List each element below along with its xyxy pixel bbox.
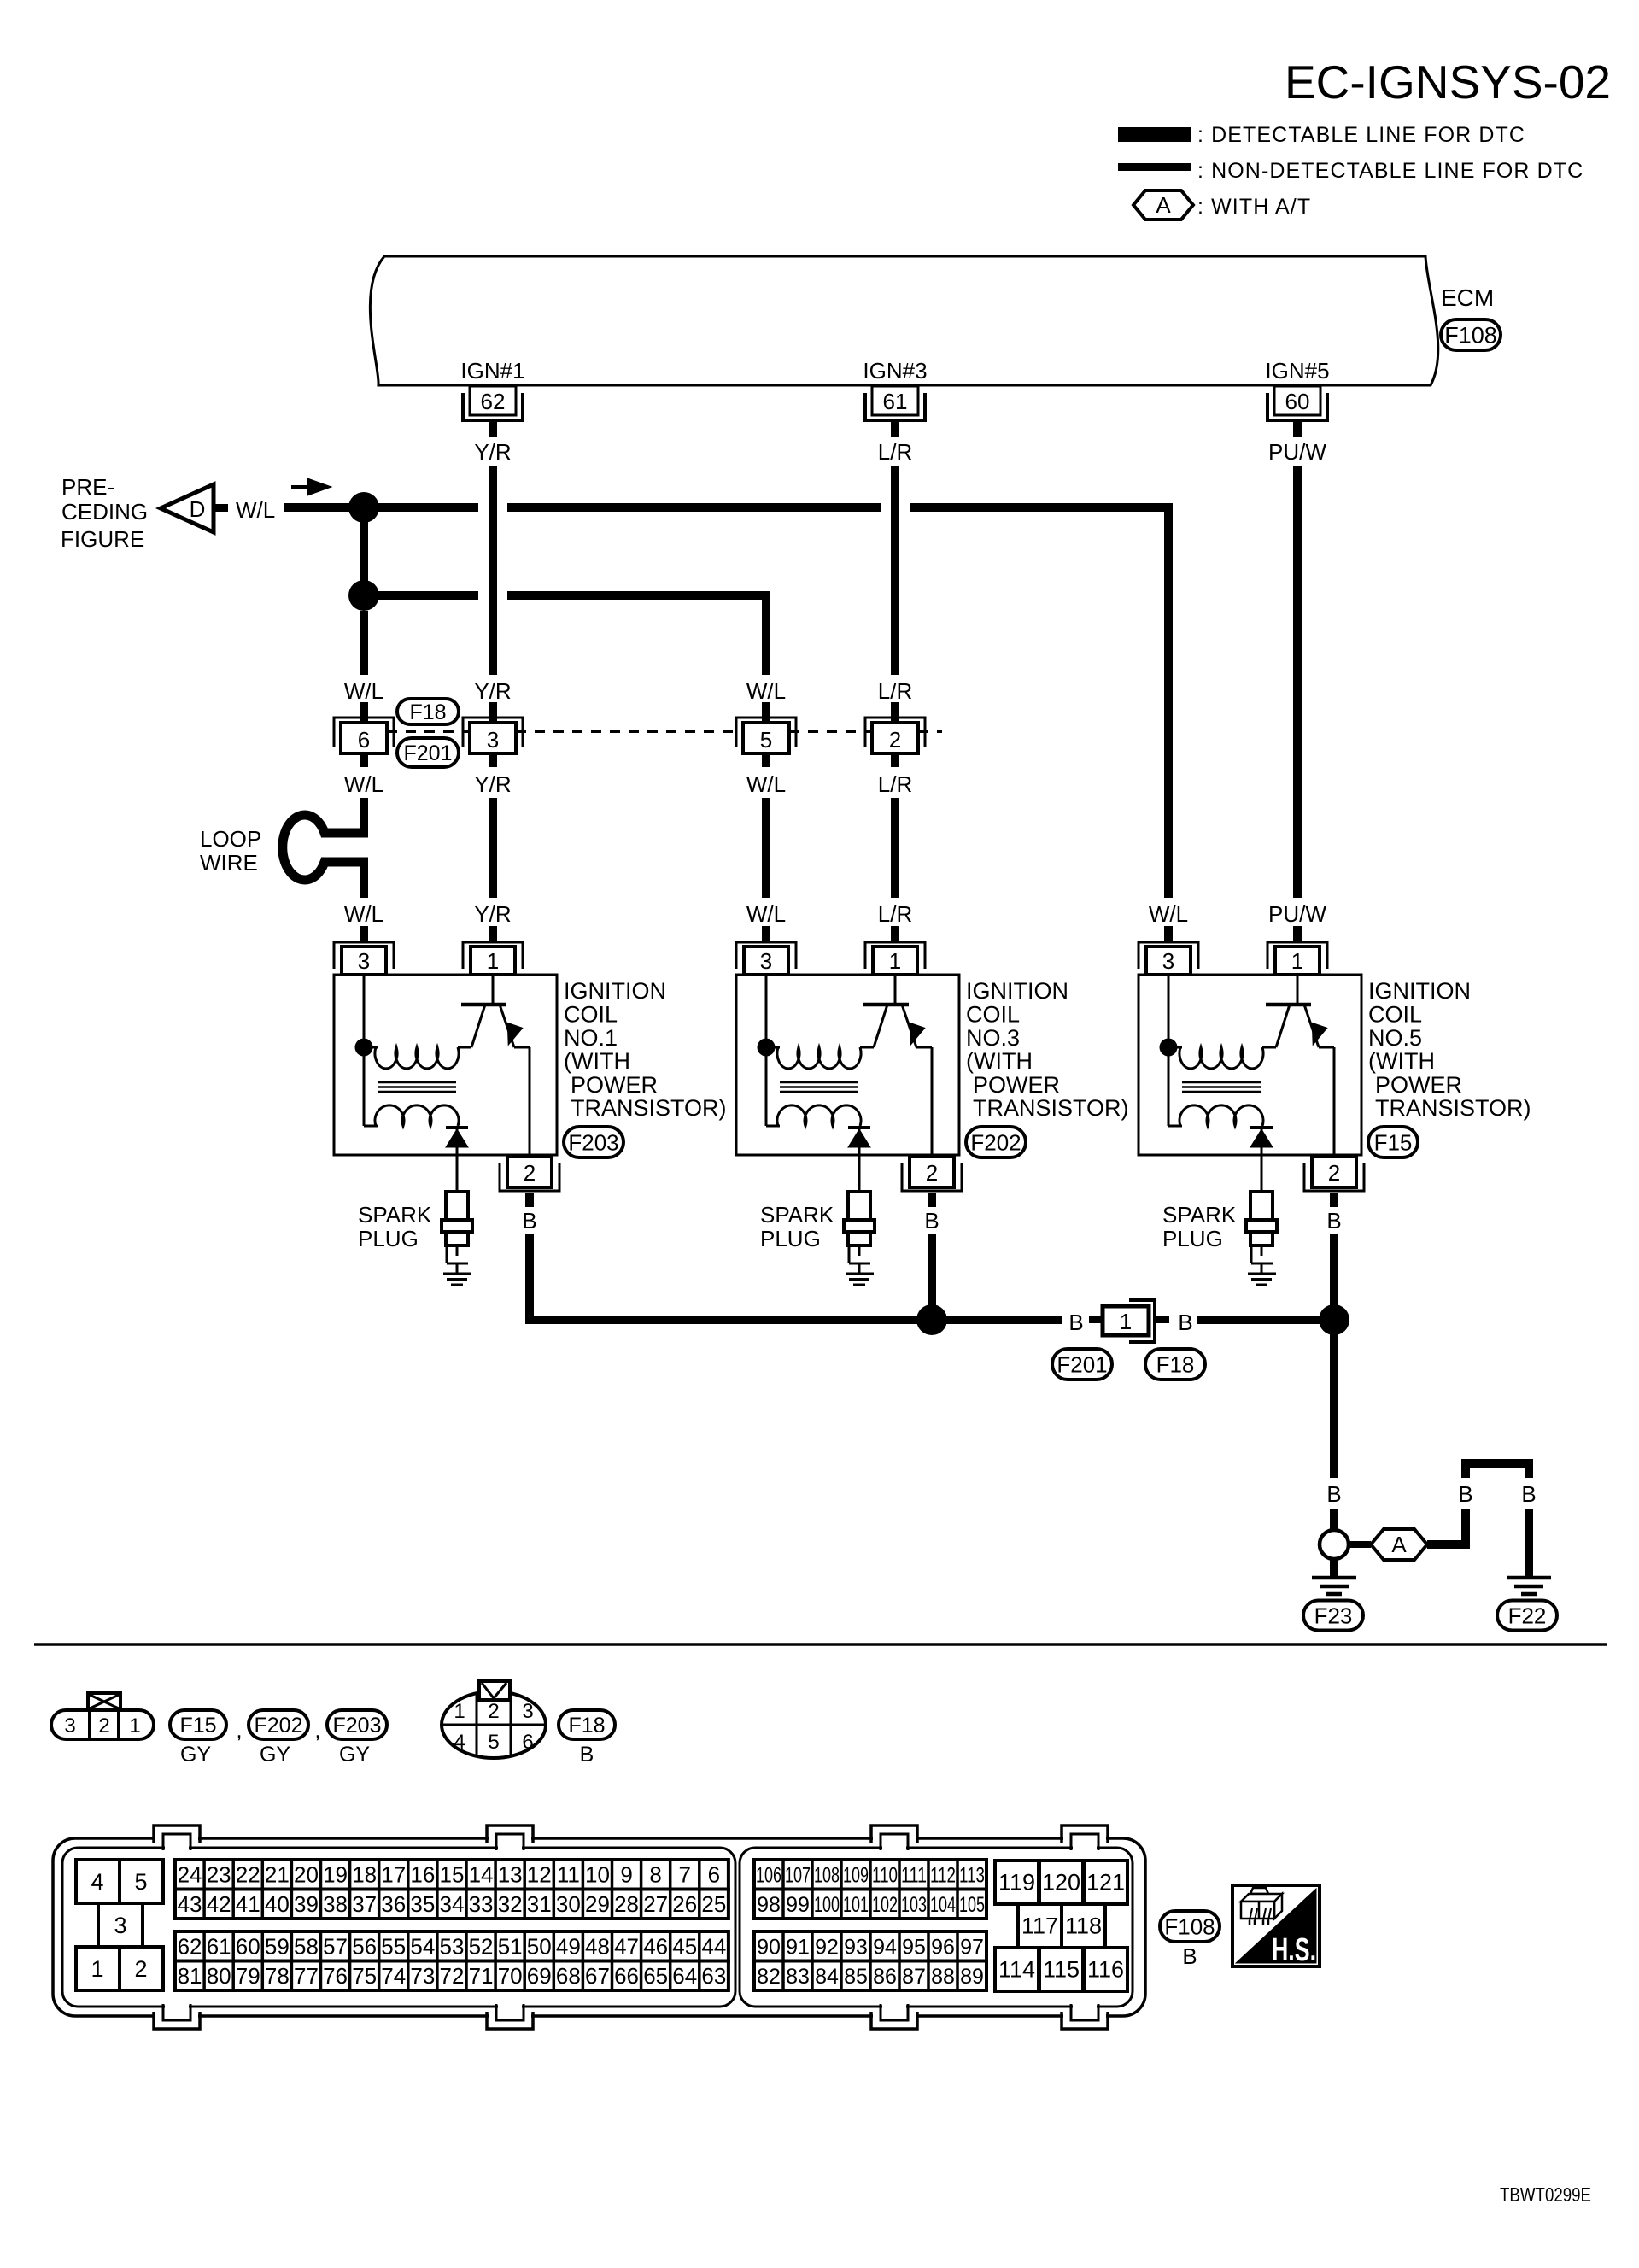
- svg-text:71: 71: [469, 1963, 494, 1989]
- svg-text:31: 31: [527, 1891, 552, 1917]
- svg-text:41: 41: [236, 1891, 260, 1917]
- svg-text:36: 36: [381, 1891, 406, 1917]
- svg-text:,: ,: [314, 1717, 320, 1743]
- svg-text:Y/R: Y/R: [474, 439, 511, 465]
- svg-text:SPARK: SPARK: [760, 1202, 834, 1228]
- svg-text:60: 60: [1285, 389, 1310, 414]
- svg-text:30: 30: [556, 1891, 581, 1917]
- svg-text:27: 27: [643, 1891, 668, 1917]
- svg-text:F23: F23: [1314, 1603, 1353, 1628]
- svg-text:5: 5: [488, 1731, 499, 1754]
- svg-text:B: B: [1068, 1310, 1083, 1335]
- svg-text:Y/R: Y/R: [474, 771, 511, 797]
- svg-text:52: 52: [469, 1934, 494, 1960]
- svg-text:119: 119: [998, 1870, 1035, 1896]
- svg-text:47: 47: [614, 1934, 639, 1960]
- svg-text:COIL: COIL: [966, 1001, 1020, 1027]
- svg-text:3: 3: [114, 1913, 126, 1938]
- svg-text:109: 109: [843, 1863, 869, 1887]
- svg-text:25: 25: [701, 1891, 726, 1917]
- svg-text:13: 13: [498, 1862, 523, 1888]
- svg-text:B: B: [580, 1743, 594, 1767]
- svg-text:66: 66: [614, 1963, 639, 1989]
- svg-text:101: 101: [843, 1893, 869, 1917]
- svg-text:87: 87: [902, 1965, 926, 1989]
- svg-text:5: 5: [760, 727, 772, 753]
- svg-text:42: 42: [207, 1891, 231, 1917]
- svg-text:1: 1: [454, 1700, 465, 1723]
- svg-text:11: 11: [557, 1862, 580, 1888]
- svg-text:F202: F202: [970, 1129, 1021, 1155]
- svg-text:20: 20: [294, 1862, 319, 1888]
- svg-text:63: 63: [701, 1963, 726, 1989]
- svg-text:PU/W: PU/W: [1268, 439, 1326, 465]
- svg-text:62: 62: [178, 1934, 202, 1960]
- svg-text:POWER: POWER: [973, 1072, 1060, 1098]
- svg-text:50: 50: [527, 1934, 552, 1960]
- svg-text:90: 90: [757, 1935, 781, 1959]
- svg-text:34: 34: [439, 1891, 464, 1917]
- svg-text:37: 37: [352, 1891, 377, 1917]
- svg-text:W/L: W/L: [236, 497, 275, 523]
- svg-text:1: 1: [1291, 948, 1303, 974]
- svg-text:56: 56: [352, 1934, 377, 1960]
- svg-text:3: 3: [1162, 948, 1174, 974]
- svg-text:B: B: [1182, 1943, 1197, 1969]
- svg-text:76: 76: [323, 1963, 348, 1989]
- svg-text:CEDING: CEDING: [61, 499, 148, 525]
- svg-text:TRANSISTOR): TRANSISTOR): [973, 1095, 1129, 1121]
- svg-text:39: 39: [294, 1891, 319, 1917]
- svg-text:45: 45: [672, 1934, 697, 1960]
- svg-text:15: 15: [439, 1862, 464, 1888]
- svg-text:PLUG: PLUG: [358, 1226, 419, 1251]
- svg-text:21: 21: [265, 1862, 290, 1888]
- svg-text:H.S.: H.S.: [1272, 1932, 1316, 1968]
- svg-text:GY: GY: [260, 1743, 290, 1767]
- svg-text:82: 82: [757, 1965, 781, 1989]
- svg-text:POWER: POWER: [571, 1072, 658, 1098]
- svg-text:84: 84: [815, 1965, 839, 1989]
- svg-text:B: B: [1178, 1310, 1192, 1335]
- svg-text:1: 1: [1120, 1309, 1132, 1334]
- svg-text:A: A: [1156, 192, 1171, 218]
- svg-text:8: 8: [649, 1862, 661, 1888]
- svg-text:3: 3: [64, 1714, 75, 1738]
- svg-text:108: 108: [814, 1863, 840, 1887]
- svg-text:94: 94: [873, 1935, 897, 1959]
- svg-text:A: A: [1391, 1532, 1407, 1557]
- svg-text:89: 89: [960, 1965, 984, 1989]
- svg-text:75: 75: [352, 1963, 377, 1989]
- svg-text:99: 99: [786, 1893, 810, 1917]
- svg-text:118: 118: [1065, 1913, 1102, 1939]
- svg-text:NO.5: NO.5: [1368, 1025, 1422, 1051]
- svg-text:1: 1: [91, 1956, 103, 1982]
- svg-text:IGNITION: IGNITION: [1368, 978, 1471, 1004]
- svg-text:COIL: COIL: [1368, 1001, 1422, 1027]
- svg-text:TBWT0299E: TBWT0299E: [1500, 2183, 1591, 2206]
- svg-text:F18: F18: [568, 1714, 605, 1738]
- svg-text:IGNITION: IGNITION: [966, 978, 1068, 1004]
- svg-text:23: 23: [207, 1862, 231, 1888]
- svg-text:117: 117: [1021, 1913, 1058, 1939]
- svg-text:W/L: W/L: [344, 771, 383, 797]
- svg-text:4: 4: [454, 1731, 465, 1754]
- svg-text:26: 26: [672, 1891, 697, 1917]
- svg-text:49: 49: [556, 1934, 581, 1960]
- svg-text:GY: GY: [180, 1743, 211, 1767]
- svg-text:77: 77: [294, 1963, 319, 1989]
- svg-text:W/L: W/L: [1149, 901, 1188, 927]
- svg-text:111: 111: [901, 1863, 927, 1887]
- svg-text:TRANSISTOR): TRANSISTOR): [571, 1095, 727, 1121]
- svg-text:L/R: L/R: [878, 439, 912, 465]
- svg-text:B: B: [924, 1208, 939, 1234]
- svg-text:2: 2: [134, 1956, 147, 1982]
- svg-text:121: 121: [1086, 1870, 1125, 1896]
- svg-text:(WITH: (WITH: [564, 1048, 630, 1074]
- svg-text:72: 72: [439, 1963, 464, 1989]
- svg-text:Y/R: Y/R: [474, 901, 511, 927]
- svg-text:69: 69: [527, 1963, 552, 1989]
- svg-text:93: 93: [844, 1935, 868, 1959]
- svg-text:SPARK: SPARK: [1162, 1202, 1237, 1228]
- svg-text:115: 115: [1043, 1957, 1080, 1983]
- svg-text:91: 91: [786, 1935, 810, 1959]
- svg-text:96: 96: [931, 1935, 955, 1959]
- svg-text:ECM: ECM: [1441, 284, 1494, 311]
- svg-text:114: 114: [998, 1957, 1035, 1983]
- svg-text:F15: F15: [1374, 1129, 1413, 1155]
- svg-text:: WITH A/T: : WITH A/T: [1197, 195, 1311, 219]
- svg-text:: NON-DETECTABLE LINE FOR DTC: : NON-DETECTABLE LINE FOR DTC: [1197, 159, 1583, 183]
- svg-text:83: 83: [786, 1965, 810, 1989]
- svg-text:110: 110: [872, 1863, 898, 1887]
- svg-text:IGN#5: IGN#5: [1265, 358, 1329, 384]
- svg-text:68: 68: [556, 1963, 581, 1989]
- svg-text:2: 2: [889, 727, 901, 753]
- svg-text:B: B: [1521, 1481, 1536, 1507]
- svg-text:IGNITION: IGNITION: [564, 978, 666, 1004]
- svg-text:102: 102: [872, 1893, 898, 1917]
- svg-text:12: 12: [527, 1862, 552, 1888]
- svg-text:38: 38: [323, 1891, 348, 1917]
- svg-text:1: 1: [487, 948, 499, 974]
- svg-text:GY: GY: [339, 1743, 370, 1767]
- svg-text:6: 6: [522, 1731, 533, 1754]
- svg-text:W/L: W/L: [746, 901, 786, 927]
- svg-text:W/L: W/L: [344, 678, 383, 704]
- svg-text:(WITH: (WITH: [966, 1048, 1033, 1074]
- svg-text:1: 1: [129, 1714, 140, 1738]
- svg-text:51: 51: [498, 1934, 523, 1960]
- svg-text:44: 44: [701, 1934, 726, 1960]
- svg-text:TRANSISTOR): TRANSISTOR): [1375, 1095, 1531, 1121]
- svg-text:79: 79: [236, 1963, 260, 1989]
- svg-text:NO.1: NO.1: [564, 1025, 618, 1051]
- svg-text:61: 61: [883, 389, 908, 414]
- svg-text:61: 61: [207, 1934, 231, 1960]
- svg-text:IGN#3: IGN#3: [863, 358, 927, 384]
- svg-text:22: 22: [236, 1862, 260, 1888]
- svg-text:3: 3: [358, 948, 370, 974]
- svg-text:PLUG: PLUG: [760, 1226, 821, 1251]
- svg-text:98: 98: [757, 1893, 781, 1917]
- svg-text:B: B: [1326, 1481, 1341, 1507]
- svg-text:17: 17: [381, 1862, 406, 1888]
- svg-text:60: 60: [236, 1934, 260, 1960]
- svg-text:3: 3: [760, 948, 772, 974]
- svg-text:1: 1: [889, 948, 901, 974]
- svg-text:33: 33: [469, 1891, 494, 1917]
- svg-text:57: 57: [323, 1934, 348, 1960]
- svg-text:F108: F108: [1444, 323, 1497, 349]
- svg-text:COIL: COIL: [564, 1001, 618, 1027]
- svg-text:103: 103: [901, 1893, 927, 1917]
- svg-text:5: 5: [134, 1869, 147, 1895]
- svg-text:55: 55: [381, 1934, 406, 1960]
- svg-text:FIGURE: FIGURE: [61, 526, 144, 552]
- svg-text:2: 2: [98, 1714, 109, 1738]
- svg-text:65: 65: [643, 1963, 668, 1989]
- svg-text:POWER: POWER: [1375, 1072, 1462, 1098]
- svg-text:85: 85: [844, 1965, 868, 1989]
- svg-text:18: 18: [352, 1862, 377, 1888]
- svg-text:6: 6: [708, 1862, 720, 1888]
- svg-text:B: B: [522, 1208, 536, 1234]
- svg-text:10: 10: [585, 1862, 610, 1888]
- svg-text:74: 74: [381, 1963, 406, 1989]
- svg-text:2: 2: [488, 1700, 499, 1723]
- svg-text:46: 46: [643, 1934, 668, 1960]
- svg-text:53: 53: [439, 1934, 464, 1960]
- svg-text:L/R: L/R: [878, 678, 912, 704]
- svg-text:PU/W: PU/W: [1268, 901, 1326, 927]
- svg-text:88: 88: [931, 1965, 955, 1989]
- svg-text:54: 54: [410, 1934, 435, 1960]
- svg-text:105: 105: [959, 1893, 985, 1917]
- svg-text:29: 29: [585, 1891, 610, 1917]
- svg-text:F15: F15: [179, 1714, 216, 1738]
- svg-text:L/R: L/R: [878, 901, 912, 927]
- svg-text:73: 73: [410, 1963, 435, 1989]
- svg-text:NO.3: NO.3: [966, 1025, 1020, 1051]
- svg-text:78: 78: [265, 1963, 290, 1989]
- svg-text:IGN#1: IGN#1: [460, 358, 524, 384]
- svg-text:113: 113: [959, 1863, 985, 1887]
- svg-text:SPARK: SPARK: [358, 1202, 432, 1228]
- svg-text:F203: F203: [333, 1714, 382, 1738]
- svg-text:,: ,: [236, 1717, 242, 1743]
- svg-text:(WITH: (WITH: [1368, 1048, 1435, 1074]
- svg-text:W/L: W/L: [746, 771, 786, 797]
- svg-text:9: 9: [620, 1862, 632, 1888]
- svg-text:104: 104: [930, 1893, 956, 1917]
- svg-text:59: 59: [265, 1934, 290, 1960]
- svg-text:35: 35: [410, 1891, 435, 1917]
- svg-text:24: 24: [178, 1862, 202, 1888]
- svg-text:EC-IGNSYS-02: EC-IGNSYS-02: [1285, 56, 1611, 108]
- svg-text:L/R: L/R: [878, 771, 912, 797]
- svg-text:W/L: W/L: [344, 901, 383, 927]
- svg-text:70: 70: [498, 1963, 523, 1989]
- svg-text:112: 112: [930, 1863, 956, 1887]
- svg-text:3: 3: [487, 727, 499, 753]
- svg-text:40: 40: [265, 1891, 290, 1917]
- svg-text:28: 28: [614, 1891, 639, 1917]
- svg-text:19: 19: [323, 1862, 348, 1888]
- svg-text:67: 67: [585, 1963, 610, 1989]
- svg-text:2: 2: [926, 1160, 938, 1186]
- svg-text:D: D: [190, 496, 206, 522]
- svg-text:LOOP: LOOP: [200, 826, 261, 852]
- svg-text:F201: F201: [1057, 1351, 1107, 1377]
- svg-text:B: B: [1326, 1208, 1341, 1234]
- svg-text:F18: F18: [409, 700, 446, 724]
- svg-text:107: 107: [785, 1863, 811, 1887]
- svg-text:F18: F18: [1156, 1351, 1195, 1377]
- svg-text:62: 62: [481, 389, 506, 414]
- svg-text:B: B: [1458, 1481, 1472, 1507]
- svg-text:14: 14: [469, 1862, 494, 1888]
- svg-text:48: 48: [585, 1934, 610, 1960]
- svg-text:2: 2: [1328, 1160, 1340, 1186]
- svg-text:WIRE: WIRE: [200, 850, 258, 876]
- svg-text:2: 2: [524, 1160, 536, 1186]
- svg-text:120: 120: [1042, 1870, 1080, 1896]
- svg-text:64: 64: [672, 1963, 697, 1989]
- svg-text:: DETECTABLE LINE FOR DTC: : DETECTABLE LINE FOR DTC: [1197, 123, 1525, 147]
- svg-text:Y/R: Y/R: [474, 678, 511, 704]
- svg-text:58: 58: [294, 1934, 319, 1960]
- svg-text:PRE-: PRE-: [61, 474, 114, 500]
- svg-text:81: 81: [178, 1963, 202, 1989]
- svg-text:92: 92: [815, 1935, 839, 1959]
- svg-text:6: 6: [358, 727, 370, 753]
- svg-text:F202: F202: [255, 1714, 303, 1738]
- svg-text:80: 80: [207, 1963, 231, 1989]
- svg-text:F22: F22: [1508, 1603, 1547, 1628]
- svg-text:16: 16: [410, 1862, 435, 1888]
- svg-text:95: 95: [902, 1935, 926, 1959]
- svg-text:86: 86: [873, 1965, 897, 1989]
- svg-text:116: 116: [1087, 1957, 1124, 1983]
- svg-text:32: 32: [498, 1891, 523, 1917]
- svg-text:43: 43: [178, 1891, 202, 1917]
- svg-text:3: 3: [522, 1700, 533, 1723]
- svg-text:F108: F108: [1164, 1913, 1215, 1939]
- svg-text:F203: F203: [568, 1129, 618, 1155]
- svg-text:F201: F201: [404, 741, 453, 765]
- svg-text:100: 100: [814, 1893, 840, 1917]
- svg-text:7: 7: [679, 1862, 691, 1888]
- svg-text:W/L: W/L: [746, 678, 786, 704]
- svg-text:PLUG: PLUG: [1162, 1226, 1223, 1251]
- svg-text:97: 97: [960, 1935, 984, 1959]
- svg-text:106: 106: [756, 1863, 781, 1887]
- svg-text:4: 4: [91, 1869, 103, 1895]
